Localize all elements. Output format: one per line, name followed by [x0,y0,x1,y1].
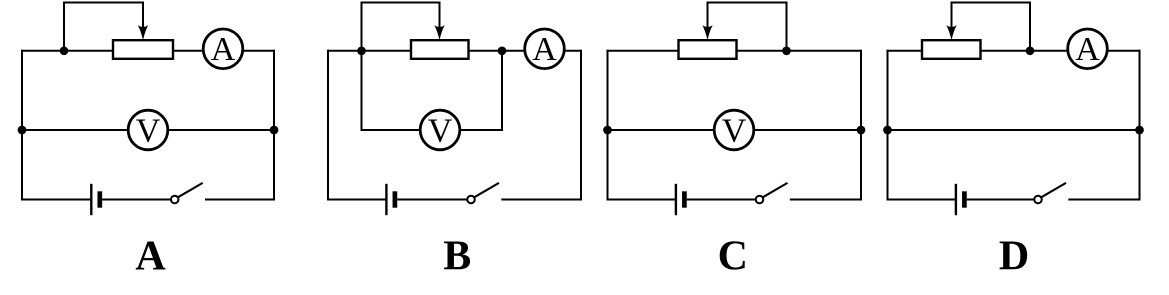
battery cell (circuit D) [955,184,957,215]
slider arrow into rheostat (circuit B) [434,25,444,40]
battery cell (circuit B) [385,184,387,215]
slider arrow into rheostat (circuit C) [702,25,712,40]
wire: circuit D switch to right corner [1068,199,1140,201]
node: junction dot (circuit C) [603,126,612,135]
wire: circuit C slider feed loop [708,3,787,51]
slider arrow into rheostat (circuit D) [946,25,956,40]
rheostat R (circuit A) [113,40,173,59]
svg-text:C: C [718,234,748,280]
switch S (circuit B) [467,196,475,204]
wire: circuit A top horizontal [21,50,275,52]
wire: circuit B voltmeter branch left vertical [361,51,363,130]
svg-text:A: A [532,31,557,68]
wire: circuit B slider feed loop [362,3,440,51]
wire: circuit D slider feed loop [952,3,1031,51]
wire: circuit C switch to right corner [790,199,862,201]
wire: circuit A right vertical [273,50,275,201]
wire: circuit D battery to switch [967,199,1034,201]
wire: circuit C right vertical [860,50,862,201]
wire: circuit A middle horizontal branch [21,129,275,131]
voltmeter V (circuit C) [714,110,754,150]
ammeter A (circuit D) [1068,29,1108,69]
ammeter A (circuit A) [203,29,243,69]
wire: circuit A bottom left segment [21,199,91,201]
wire: circuit B switch to right corner [501,199,582,201]
wire: circuit D top horizontal [887,50,1141,52]
rheostat R (circuit C) [679,40,737,59]
wire: circuit A battery to switch [102,199,171,201]
slider arrow into rheostat (circuit A) [138,25,148,40]
node: junction dot (circuit D) [883,126,892,135]
wire: circuit B battery to switch [397,199,467,201]
switch S (circuit C) [756,196,764,204]
wire: circuit B voltmeter branch right vertical [501,51,503,130]
rheostat R (circuit D) [922,40,981,59]
svg-text:B: B [443,234,471,280]
wire: circuit A switch to right corner [205,199,275,201]
svg-text:V: V [428,112,453,149]
rheostat R (circuit B) [411,40,469,59]
wire: circuit A slider feed loop [64,3,143,51]
node: junction dot (circuit C) [782,46,791,55]
wire: circuit C left vertical [607,50,609,201]
node: junction dot (circuit A) [18,126,27,135]
node: junction dot (circuit C) [857,126,866,135]
wire: circuit D middle horizontal branch [887,129,1141,131]
wire: circuit B voltmeter branch horizontal [361,129,504,131]
node: junction dot (circuit B) [357,46,366,55]
wire: circuit C top horizontal [607,50,863,52]
wire: circuit A left vertical [21,50,23,201]
wire: circuit C middle horizontal branch [607,129,863,131]
switch S (circuit A) [171,196,179,204]
wire: circuit D left vertical [887,50,889,201]
node: junction dot (circuit D) [1135,126,1144,135]
svg-text:A: A [1075,31,1100,68]
switch S (circuit D) [1034,196,1042,204]
node: junction dot (circuit B) [498,46,507,55]
svg-text:V: V [136,112,161,149]
wire: circuit B bottom left segment [327,199,386,201]
wire: circuit B left vertical [327,50,329,201]
wire: circuit C bottom left segment [607,199,676,201]
wire: circuit B right vertical [580,50,582,201]
wire: circuit C battery to switch [687,199,756,201]
svg-text:A: A [211,31,236,68]
battery cell (circuit A) [90,184,92,215]
svg-text:D: D [999,234,1029,280]
wire: circuit B top horizontal [327,50,582,52]
wire: circuit D right vertical [1139,50,1141,201]
voltmeter V (circuit A) [128,110,168,150]
voltmeter V (circuit B) [420,110,460,150]
battery cell (circuit C) [675,184,677,215]
svg-text:V: V [722,112,747,149]
node: junction dot (circuit A) [60,46,69,55]
svg-text:A: A [135,234,166,280]
node: junction dot (circuit A) [270,126,279,135]
wire: circuit D bottom left segment [887,199,956,201]
ammeter A (circuit B) [525,29,565,69]
node: junction dot (circuit D) [1026,46,1035,55]
